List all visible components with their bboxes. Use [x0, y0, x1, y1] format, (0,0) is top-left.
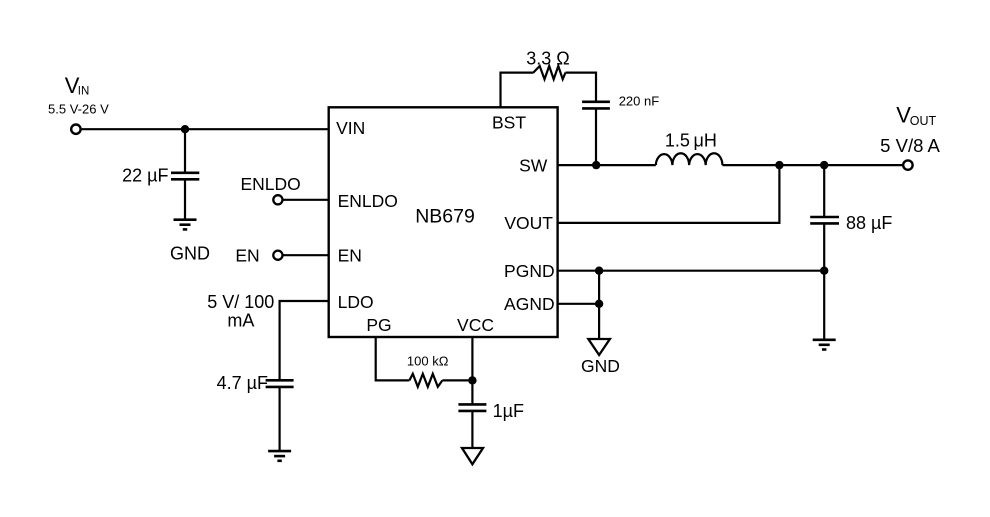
node junction PGND: [595, 267, 603, 275]
svg-text:5.5 V-26 V: 5.5 V-26 V: [48, 101, 109, 116]
wire VIN terminal to IC: [82, 128, 329, 130]
svg-text:PGND: PGND: [504, 261, 555, 281]
wire resistor to VCC node: [442, 379, 472, 381]
label VIN port: [65, 73, 90, 98]
svg-text:3.3 Ω: 3.3 Ω: [526, 48, 569, 68]
IC U1 NB679 body: [329, 107, 558, 337]
svg-text:GND: GND: [170, 244, 210, 264]
node junction VOUT feedback: [775, 161, 783, 169]
svg-text:1µF: 1µF: [493, 401, 524, 421]
svg-text:ENLDO: ENLDO: [241, 174, 301, 194]
capacitor C2 4.7 uF: [266, 380, 294, 387]
node junction R2/VCC: [468, 376, 476, 384]
wire SW pin to inductor: [557, 164, 655, 166]
wire PG pin down: [376, 337, 410, 380]
svg-text:SW: SW: [519, 155, 548, 175]
resistor R1 3.3 ohm: [533, 66, 565, 79]
inductor L1 1.5 uH: [656, 153, 723, 165]
wire inductor to VOUT terminal: [722, 164, 903, 166]
wire BST up from IC: [501, 73, 534, 108]
svg-text:AGND: AGND: [504, 294, 555, 314]
svg-text:1.5 μH: 1.5 μH: [665, 130, 717, 150]
node junction C4 top: [820, 161, 828, 169]
wire C4 bottom: [823, 223, 825, 339]
svg-text:100 kΩ: 100 kΩ: [407, 353, 449, 368]
svg-text:5 V/8 A: 5 V/8 A: [880, 135, 940, 156]
svg-text:GND: GND: [581, 356, 620, 376]
capacitor C5 1 uF: [458, 404, 486, 411]
ground triangle under C5: [462, 448, 483, 464]
wire C4 top: [823, 165, 825, 217]
ground triangle AGND: [588, 339, 610, 355]
node junction at C1 tap: [181, 125, 189, 133]
wire C5 bottom: [471, 411, 473, 448]
resistor R2 100 kohm: [409, 374, 442, 387]
svg-text:88 µF: 88 µF: [846, 213, 892, 233]
ground earth under C4: [813, 340, 836, 350]
svg-text:LDO: LDO: [338, 292, 374, 312]
svg-text:EN: EN: [235, 245, 259, 265]
wire C1 bottom: [184, 179, 186, 219]
node junction AGND: [595, 300, 603, 308]
svg-text:VIN: VIN: [336, 118, 365, 138]
capacitor C3 220 nF: [582, 102, 610, 109]
svg-text:ENLDO: ENLDO: [338, 191, 398, 211]
wire AGND pin: [557, 303, 599, 305]
svg-text:220 nF: 220 nF: [619, 94, 660, 109]
svg-text:PG: PG: [366, 315, 391, 335]
ground earth under C2: [268, 451, 291, 461]
terminal EN circle: [273, 251, 282, 260]
svg-text:4.7 µF: 4.7 µF: [217, 373, 268, 393]
wire EN to IC: [283, 254, 329, 256]
svg-text:22 µF: 22 µF: [122, 166, 168, 186]
wire ENLDO to IC: [283, 199, 329, 201]
capacitor C1 22 uF: [171, 173, 199, 180]
node junction PGND/C4: [820, 267, 828, 275]
wire resistor to C3: [566, 73, 597, 102]
wire VOUT pin feedback: [557, 165, 779, 223]
wire PGND pin: [557, 270, 824, 272]
wire VCC pin down: [471, 337, 473, 404]
wire C3 bottom to SW net: [595, 108, 597, 165]
svg-text:EN: EN: [338, 245, 362, 265]
svg-text:VCC: VCC: [457, 315, 494, 335]
svg-text:5 V/ 100: 5 V/ 100: [207, 292, 274, 312]
node junction C3/SW: [592, 161, 600, 169]
svg-text:mA: mA: [227, 310, 254, 330]
wire C2 bottom: [279, 387, 281, 451]
label VOUT port: [896, 102, 936, 128]
terminal VOUT (output port circle): [903, 160, 912, 169]
svg-text:IN: IN: [78, 85, 90, 97]
ground earth under C1: [174, 220, 197, 230]
svg-text:NB679: NB679: [415, 206, 475, 228]
svg-text:OUT: OUT: [910, 114, 937, 128]
wire LDO pin: [280, 301, 329, 380]
wire PGND to GND triangle: [598, 271, 600, 339]
wire C1 top: [184, 129, 186, 173]
capacitor C4 88 uF: [810, 217, 839, 223]
svg-text:BST: BST: [492, 113, 526, 133]
svg-text:VOUT: VOUT: [504, 213, 553, 233]
terminal VIN (input port circle): [71, 125, 80, 134]
terminal ENLDO circle: [273, 195, 282, 204]
